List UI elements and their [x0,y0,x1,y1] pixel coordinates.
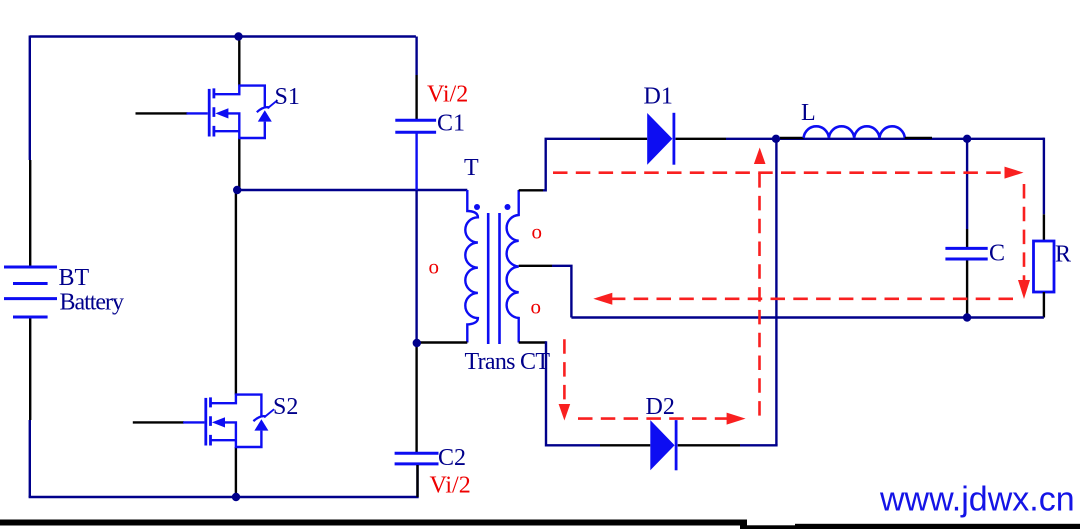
resistor R [1034,241,1055,292]
diode D1 [647,113,672,165]
svg-text:o: o [531,295,542,319]
transformer polarity dot primary [474,204,480,210]
wire C output top stub (black) [966,229,968,248]
wire C line to C2 (black) [415,343,417,453]
inductor L [804,126,905,138]
junction dot bottom rail [232,493,240,501]
svg-text:Battery: Battery [60,290,125,316]
current path 1 return segment (red dashed) [612,297,1013,300]
svg-text:www.jdwx.cn: www.jdwx.cn [879,481,1075,519]
svg-text:T: T [464,155,479,181]
wire C output bottom stub (black) [966,261,968,318]
current path 2 up segment (red dashed) [758,166,761,416]
wire D2 to right vertical [740,444,778,446]
svg-text:D2: D2 [646,394,675,420]
svg-text:S1: S1 [275,84,300,110]
current path 1 down arrow [1018,280,1030,299]
svg-text:Vi/2: Vi/2 [430,473,471,499]
transistor S2 [183,395,274,447]
wire top rail [30,35,416,37]
wire secondary bottom to D2 [546,341,600,445]
wire secondary top to D1 branch [543,139,600,191]
current path 2 down arrow [559,404,571,421]
wire C1 bottom to mid rail [415,134,417,191]
wire D2 anode stub (black) [600,444,650,446]
wire S1 gate lead (black) [136,112,188,114]
wire secondary bottom (black) [519,341,546,343]
current path 2 up arrow [754,148,766,165]
capacitor C1 [395,120,436,132]
wire R top stub (black) [1043,214,1045,241]
wire output bottom rail [571,316,1044,318]
svg-text:Trans CT: Trans CT [465,349,551,375]
wire D1 to D2 vertical [775,139,777,446]
svg-text:C1: C1 [437,111,465,137]
wire S1 drain (black) [238,37,240,86]
wire D2 cathode stub (black) [678,444,740,446]
wire R bottom stub (black) [1043,292,1045,318]
junction dot primary bottom [413,339,421,347]
wire L right stub (black) [905,137,932,139]
wire S1 source (black) [238,138,240,190]
current path 1 left arrow [593,293,612,305]
current path 2 right arrow [727,413,746,425]
transistor S1 [187,86,278,138]
svg-text:o: o [532,220,543,244]
svg-text:BT: BT [59,265,90,291]
svg-text:S2: S2 [273,394,298,420]
wire center tap (black stub) [519,265,552,267]
junction dot top rail [234,32,242,40]
current path 1 right vertical (red dashed) [1023,184,1026,281]
junction dot L output [963,135,971,143]
wire output top rail [726,138,1044,140]
wire left vertical lower [29,420,31,497]
diode D2 [650,420,674,470]
wire C1 branch top [415,37,417,76]
wire right edge down to R [1043,138,1045,215]
wire primary bottom [417,341,468,343]
svg-text:D1: D1 [644,84,673,110]
current path 2 down segment (red dashed) [563,339,566,402]
wire D1 anode stub (black) [600,138,647,140]
capacitor C2 [395,453,439,464]
wire bottom rail left circuit [29,464,418,497]
bottom black bar left [0,520,747,526]
wire S2 drain (black) [235,190,237,395]
wire S2 source (black) [235,447,237,497]
wire mid rail [237,189,467,191]
svg-text:L: L [801,100,816,126]
bottom black bar transition [740,525,800,529]
wire C line mid to primary bottom [415,190,417,343]
transformer primary winding [465,190,478,343]
wire L left stub (black) [780,137,804,139]
transformer core lines [488,213,499,344]
wire S2 gate lead (black) [133,421,184,423]
capacitor C output [945,248,987,259]
wire C1 top stub (black) [415,75,417,120]
diode D2 cathode bar [675,420,678,470]
svg-text:C: C [989,241,1005,267]
transformer polarity dot secondary [505,204,511,210]
svg-text:Vi/2: Vi/2 [427,82,468,108]
battery BT plates [4,267,57,317]
wire battery stem bottom (black) [29,319,31,421]
bottom black bar right [795,524,1080,529]
svg-text:o: o [429,255,440,279]
wire battery stem top (black) [29,160,31,266]
svg-text:R: R [1055,242,1071,268]
wire center tap to bottom rail [552,266,571,318]
junction dot D1 output [772,135,780,143]
junction dot C bottom [963,313,971,321]
wire C2 bottom stub (black) [416,465,418,497]
wire secondary top stub (black) [519,189,543,191]
transformer secondary winding [507,190,519,343]
current path 1 top segment (red dashed) [553,171,1004,174]
wire D1 cathode stub (black) [676,138,727,140]
current path 2 bottom segment (red dashed) [578,417,727,420]
svg-text:C2: C2 [438,445,466,471]
current path 1 right arrow [1005,167,1024,179]
wire C output branch upper [966,139,968,229]
diode D1 cathode bar [673,113,676,165]
junction dot mid rail [233,186,241,194]
wire left vertical upper [29,36,31,161]
